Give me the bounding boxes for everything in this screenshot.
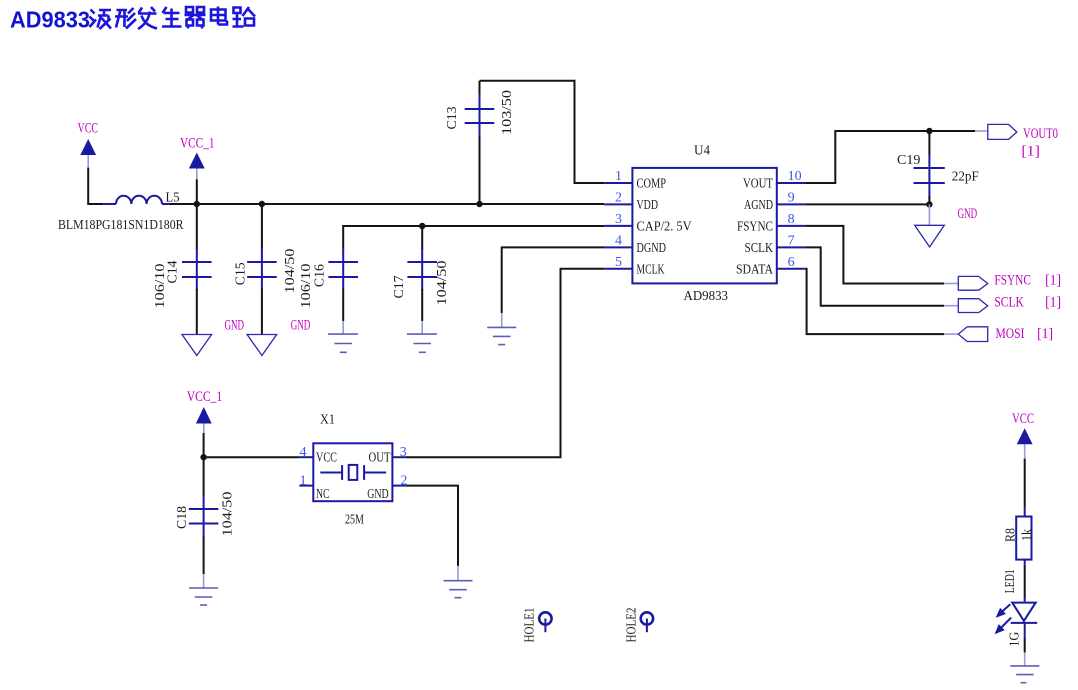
svg-text:AD9833: AD9833	[684, 289, 729, 304]
svg-text:104/50: 104/50	[435, 261, 450, 306]
title chinese glyphs	[90, 7, 256, 30]
junction at C17	[419, 223, 425, 229]
crystal symbol inside X1	[320, 465, 386, 480]
svg-text:6: 6	[788, 255, 795, 270]
svg-text:104/50: 104/50	[220, 492, 235, 537]
pin 8 FSYNC	[737, 212, 805, 235]
ground earth under X1	[444, 566, 473, 598]
wire VCC_1 down to crystal	[204, 433, 300, 457]
node VCC_1 (bottom)	[187, 389, 223, 405]
svg-text:VCC: VCC	[78, 121, 99, 137]
wire SDATA/MOSI net	[805, 269, 958, 334]
svg-text:CAP/2. 5V: CAP/2. 5V	[637, 220, 692, 235]
wire R8 to LED1	[1024, 560, 1026, 602]
pin 9 AGND	[744, 190, 805, 213]
svg-text:C13: C13	[445, 107, 460, 130]
connector VOUT0	[988, 124, 1058, 159]
svg-text:22pF: 22pF	[952, 170, 979, 185]
svg-text:25M: 25M	[345, 513, 364, 528]
svg-text:VOUT: VOUT	[743, 177, 773, 192]
wire VCC_1 stem to bus	[196, 179, 198, 204]
svg-text:VCC: VCC	[1012, 411, 1034, 427]
pin 5 MCLK	[604, 255, 664, 278]
svg-text:[1]: [1]	[1021, 144, 1040, 160]
capacitor C13	[445, 81, 515, 204]
capacitor C15	[233, 204, 297, 335]
junction at C13	[476, 201, 482, 207]
svg-text:5: 5	[615, 255, 622, 270]
svg-text:SCLK: SCLK	[745, 241, 774, 256]
ground GND triangle under C19	[915, 204, 945, 247]
wire C13 top to COMP pin	[480, 81, 605, 183]
ground earth under C18	[189, 574, 218, 605]
svg-text:[1]: [1]	[1045, 272, 1061, 288]
svg-text:FSYNC: FSYNC	[737, 220, 773, 235]
capacitor C17	[392, 226, 450, 321]
svg-text:1: 1	[300, 473, 307, 488]
svg-text:VCC: VCC	[316, 450, 337, 465]
wire CAP/2.5V bus	[343, 226, 604, 249]
svg-text:FSYNC: FSYNC	[994, 272, 1031, 288]
title AD9833	[10, 7, 90, 33]
svg-text:U4: U4	[694, 144, 710, 159]
svg-text:X1: X1	[320, 413, 335, 428]
pin 6 SDATA	[736, 255, 805, 278]
svg-text:NC: NC	[316, 487, 330, 502]
wire SCLK net	[805, 247, 958, 305]
svg-text:3: 3	[615, 212, 622, 227]
pin 1 COMP	[604, 169, 666, 192]
pin 1 NC of X1	[299, 473, 329, 502]
pin 10 VOUT	[743, 169, 805, 192]
hole HOLE1	[523, 608, 552, 643]
node GND label right	[958, 206, 978, 222]
inductor L5	[58, 191, 184, 233]
power arrow VCC left	[80, 139, 96, 168]
svg-text:MCLK: MCLK	[637, 263, 665, 278]
svg-text:C17: C17	[392, 276, 407, 299]
power arrow VCC_1 bottom	[196, 407, 212, 434]
op-amp U4 AD9833 box	[632, 144, 776, 305]
wire VOUT up to output node	[805, 131, 988, 183]
wire main VDD bus	[170, 203, 605, 205]
wire VCC down to inductor	[88, 168, 103, 204]
svg-text:7: 7	[788, 233, 795, 248]
junction at C19 top	[926, 128, 932, 134]
svg-text:10: 10	[788, 169, 802, 184]
ground earth under C17	[407, 321, 437, 352]
svg-text:1k: 1k	[1020, 529, 1035, 541]
pin 7 SCLK	[745, 233, 806, 256]
junction at C15	[259, 201, 265, 207]
wire X1 GND pin to earth	[406, 486, 458, 566]
connector MOSI	[958, 326, 1053, 342]
connector FSYNC	[958, 272, 1061, 290]
power arrow VCC right	[1017, 428, 1033, 459]
svg-text:COMP: COMP	[637, 177, 667, 192]
svg-text:LED1: LED1	[1003, 569, 1018, 593]
node GND label left1	[225, 318, 245, 334]
junction at C14/VCC_1	[194, 201, 200, 207]
hole HOLE2	[625, 608, 654, 643]
svg-text:HOLE2: HOLE2	[625, 608, 640, 643]
ground GND triangle under C15	[247, 335, 277, 356]
node VCC_1 (top)	[180, 135, 215, 151]
capacitor C16	[299, 248, 358, 321]
node VCC (right power)	[1012, 411, 1034, 427]
LED LED1	[995, 569, 1038, 647]
ground earth under DGND	[487, 313, 516, 345]
svg-text:VOUT0: VOUT0	[1023, 126, 1058, 142]
svg-text:C19: C19	[897, 153, 920, 168]
junction at C18	[200, 454, 206, 460]
svg-text:GND: GND	[225, 318, 245, 334]
svg-text:4: 4	[300, 445, 307, 460]
pin 2 VDD	[604, 190, 658, 213]
junction at AGND/C19	[926, 201, 932, 207]
svg-text:BLM18PG181SN1D180R: BLM18PG181SN1D180R	[58, 218, 184, 233]
svg-text:106/10: 106/10	[299, 264, 314, 309]
svg-text:1G: 1G	[1007, 632, 1022, 647]
svg-text:HOLE1: HOLE1	[523, 608, 538, 643]
svg-text:2: 2	[615, 190, 622, 205]
capacitor C19	[897, 131, 979, 204]
pin 4 DGND	[604, 233, 666, 256]
svg-text:R8: R8	[1003, 528, 1018, 542]
resistor R8	[1003, 517, 1034, 560]
svg-text:C16: C16	[312, 264, 327, 287]
node GND label left2	[291, 318, 311, 334]
wire DGND to earth	[502, 247, 605, 313]
crystal X1 box	[313, 413, 392, 528]
svg-text:3: 3	[400, 445, 407, 460]
ground earth under LED1	[1010, 652, 1039, 682]
svg-text:SCLK: SCLK	[994, 294, 1024, 310]
node VCC (left power)	[78, 121, 99, 137]
svg-text:4: 4	[615, 233, 622, 248]
svg-text:[1]: [1]	[1045, 294, 1061, 310]
svg-text:OUT: OUT	[369, 450, 391, 465]
pin 4 VCC of X1	[299, 445, 337, 465]
ground GND triangle under C14	[182, 335, 212, 356]
ground earth under C16	[328, 321, 358, 352]
svg-text:VDD: VDD	[637, 198, 659, 213]
wire LED1 to earth	[1024, 623, 1026, 653]
connector SCLK	[958, 294, 1061, 312]
capacitor C14	[153, 204, 212, 335]
svg-text:GND: GND	[291, 318, 311, 334]
wire VCC to R8	[1024, 459, 1026, 517]
svg-text:104/50: 104/50	[283, 249, 298, 294]
svg-text:AD9833: AD9833	[10, 7, 90, 33]
svg-text:C15: C15	[233, 262, 248, 285]
svg-text:GND: GND	[958, 206, 978, 222]
svg-text:8: 8	[788, 212, 795, 227]
svg-text:106/10: 106/10	[153, 264, 168, 309]
pin 3 OUT of X1	[369, 445, 407, 465]
svg-text:SDATA: SDATA	[736, 263, 774, 278]
svg-text:9: 9	[788, 190, 795, 205]
svg-text:[1]: [1]	[1037, 326, 1053, 342]
svg-text:103/50: 103/50	[500, 90, 515, 135]
svg-text:MOSI: MOSI	[996, 326, 1025, 342]
wire MCLK to crystal OUT	[406, 269, 604, 457]
pin 2 GND of X1	[367, 473, 407, 502]
svg-text:C18: C18	[175, 506, 190, 529]
svg-text:VCC_1: VCC_1	[180, 135, 215, 151]
wire AGND to junction	[805, 203, 929, 205]
svg-text:AGND: AGND	[744, 198, 773, 213]
svg-text:GND: GND	[367, 487, 389, 502]
svg-text:1: 1	[615, 169, 622, 184]
capacitor C18	[175, 457, 236, 574]
pin 3 CAP/2.5V	[604, 212, 691, 235]
wire FSYNC net	[805, 226, 958, 284]
svg-text:VCC_1: VCC_1	[187, 389, 223, 405]
svg-text:DGND: DGND	[637, 241, 667, 256]
power arrow VCC_1 top	[189, 153, 205, 181]
